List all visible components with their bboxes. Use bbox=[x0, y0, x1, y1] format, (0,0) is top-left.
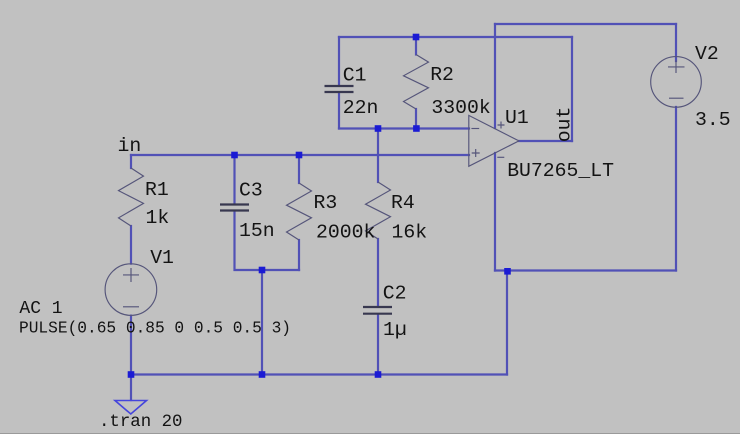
wire R4 to C2 bbox=[377, 239, 379, 306]
svg-text:R2: R2 bbox=[430, 64, 454, 86]
wire feedback right vertical bbox=[571, 37, 573, 141]
capacitor C2 plates bbox=[363, 307, 392, 314]
wire supply bottom horizontal bbox=[495, 269, 676, 271]
ground symbol bbox=[115, 401, 147, 415]
svg-text:C3: C3 bbox=[239, 180, 263, 202]
svg-text:in: in bbox=[118, 135, 142, 157]
wire C1 top bbox=[338, 37, 340, 85]
junction node V- rail bbox=[504, 268, 511, 275]
svg-text:AC 1: AC 1 bbox=[19, 299, 62, 319]
wire R3 bottom bbox=[298, 240, 300, 270]
svg-text:U1: U1 bbox=[505, 107, 529, 129]
wire C3R3 ground drop bbox=[261, 270, 263, 375]
svg-text:16k: 16k bbox=[392, 222, 428, 244]
op-amp U1 V+ pin mark bbox=[498, 122, 505, 129]
junction node rail/C2 bbox=[375, 371, 382, 378]
junction node C3R3 bottom bbox=[259, 267, 266, 274]
resistor R3 bbox=[287, 183, 312, 240]
svg-text:PULSE(0.65 0.85 0 0.5 0.5 3): PULSE(0.65 0.85 0 0.5 0.5 3) bbox=[19, 319, 291, 337]
junction node R2 top bbox=[413, 34, 420, 41]
resistor R1 bbox=[119, 168, 144, 226]
svg-text:2000k: 2000k bbox=[316, 221, 375, 243]
wire R1 to V1 bbox=[130, 226, 132, 264]
resistor R2 bbox=[404, 55, 429, 110]
junction node R2 bottom/feedback bbox=[413, 125, 420, 132]
wire C3 bottom bbox=[235, 211, 300, 270]
op-amp U1 inverting input mark bbox=[471, 128, 479, 130]
wire V2 top stub bbox=[675, 24, 677, 61]
svg-text:V1: V1 bbox=[150, 247, 174, 269]
op-amp U1 non-inverting input mark bbox=[472, 149, 480, 157]
wire C2 bottom bbox=[377, 315, 379, 375]
wire feedback top bbox=[339, 36, 572, 38]
wire V- supply vertical bbox=[494, 153, 496, 271]
junction node R3/in bbox=[296, 152, 303, 159]
source V2 circle bbox=[651, 57, 702, 108]
wire V1 bottom bbox=[130, 316, 132, 375]
wire supply top horizontal bbox=[495, 23, 676, 25]
svg-text:R1: R1 bbox=[145, 179, 169, 201]
svg-text:R3: R3 bbox=[314, 192, 338, 214]
wire C3 top drop bbox=[233, 155, 235, 204]
junction node V1 bottom rail bbox=[128, 371, 135, 378]
svg-text:V2: V2 bbox=[695, 43, 719, 65]
source V1 plus bbox=[123, 268, 139, 282]
svg-text:C1: C1 bbox=[343, 65, 367, 87]
source V1 circle bbox=[105, 264, 157, 316]
svg-text:BU7265_LT: BU7265_LT bbox=[507, 160, 614, 182]
svg-text:C2: C2 bbox=[383, 282, 407, 304]
wire opamp output bbox=[519, 140, 572, 142]
svg-text:1µ: 1µ bbox=[383, 319, 407, 341]
source V2 minus bbox=[669, 97, 684, 99]
junction node C3/in bbox=[231, 152, 238, 159]
svg-text:3.5: 3.5 bbox=[695, 109, 731, 131]
wire bottom rail bbox=[131, 373, 507, 375]
wire R2 top bbox=[415, 37, 417, 55]
junction node rail/C3R3 drop bbox=[259, 371, 266, 378]
svg-text:out: out bbox=[553, 107, 575, 143]
wire C1 bottom bbox=[338, 93, 340, 129]
op-amp U1 triangle bbox=[469, 115, 519, 166]
wire V2 bottom stub bbox=[675, 107, 677, 271]
wire R3 top drop bbox=[298, 155, 300, 183]
svg-text:R4: R4 bbox=[391, 192, 415, 214]
wire in horizontal bbox=[131, 154, 469, 156]
wire V+ supply vertical bbox=[494, 24, 496, 128]
wire R4 top bbox=[377, 129, 379, 183]
svg-text:.tran 20: .tran 20 bbox=[99, 413, 183, 432]
capacitor C3 plates bbox=[220, 205, 249, 211]
wire R1 top drop bbox=[130, 155, 132, 168]
wire ground drop right bbox=[506, 271, 508, 375]
wire feedback bottom to inverting input bbox=[339, 127, 469, 129]
svg-text:15n: 15n bbox=[239, 220, 275, 242]
svg-text:22n: 22n bbox=[343, 97, 379, 119]
junction node R4/feedback bbox=[375, 125, 382, 132]
source V2 plus bbox=[668, 60, 685, 73]
op-amp U1 V- pin mark bbox=[497, 156, 504, 158]
resistor R4 bbox=[366, 182, 391, 239]
source V1 minus bbox=[123, 306, 139, 308]
bottom window edge bbox=[0, 433, 740, 434]
svg-text:1k: 1k bbox=[146, 207, 170, 229]
svg-text:3300k: 3300k bbox=[431, 97, 490, 119]
wire R2 bottom bbox=[415, 109, 417, 129]
capacitor C1 plates bbox=[325, 86, 354, 92]
wire ground stub bbox=[130, 375, 132, 401]
